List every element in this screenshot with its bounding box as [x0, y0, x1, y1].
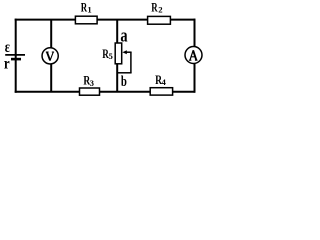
- wire rheostat branch: [116, 20, 118, 92]
- wire right edge (ammeter branch): [194, 19, 196, 93]
- resistor R1 box: [75, 16, 97, 24]
- resistor R4 box: [150, 88, 172, 95]
- battery cell: long plate: [5, 54, 25, 56]
- battery cell: short thick plate: [11, 58, 21, 61]
- svg-text:3: 3: [90, 79, 94, 88]
- rheostat R5 box: [115, 43, 122, 64]
- svg-text:4: 4: [162, 77, 167, 87]
- svg-text:5: 5: [109, 51, 114, 61]
- rheostat wiper return bottom wire: [117, 72, 132, 74]
- svg-text:b: b: [121, 74, 127, 90]
- voltmeter letter V: [46, 52, 54, 61]
- svg-text:ε: ε: [5, 39, 10, 56]
- svg-text:2: 2: [158, 5, 162, 15]
- svg-text:a: a: [120, 25, 128, 46]
- wire left edge (battery branch): [15, 19, 17, 93]
- wire voltmeter branch: [50, 20, 52, 92]
- rheostat wiper horizontal line: [126, 51, 132, 53]
- voltmeter V circle: [42, 48, 58, 64]
- resistor R2 box: [148, 16, 171, 24]
- wire bottom bus: [15, 91, 196, 93]
- wire top bus: [15, 19, 196, 21]
- ammeter A circle: [185, 47, 202, 64]
- svg-text:r: r: [4, 56, 10, 73]
- svg-text:1: 1: [87, 4, 91, 14]
- resistor R3 box: [80, 88, 100, 95]
- rheostat wiper return vertical wire: [130, 52, 132, 73]
- rheostat wiper arrowhead: [122, 50, 126, 54]
- ammeter letter A: [189, 50, 198, 60]
